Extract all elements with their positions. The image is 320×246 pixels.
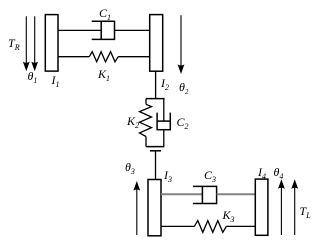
spring K2	[140, 99, 152, 147]
angle arrow theta4 (upward)	[278, 179, 285, 235]
wire I2 bottom to parallel bar	[155, 71, 157, 98]
damper C2	[156, 99, 171, 147]
inertia I3	[148, 180, 161, 236]
wire I3 to spring K3	[161, 225, 194, 227]
torque arrow T_R (left, downward)	[23, 16, 30, 71]
inertia I1	[45, 15, 58, 72]
wire T to I3	[155, 151, 157, 180]
wire I1 to damper C1	[58, 29, 101, 31]
angle arrow theta1 (left, downward)	[31, 16, 38, 71]
angle arrow theta3 (upward)	[133, 181, 140, 235]
wire C3 to I4 (gray)	[217, 193, 256, 195]
inertia I4	[255, 179, 268, 235]
wire top bar of K2/C2	[146, 98, 165, 100]
wire I1 to spring K1	[58, 56, 89, 58]
inertia I2	[150, 15, 163, 72]
wire bottom bar of K2/C2	[146, 146, 164, 148]
wire C1 to I2	[115, 29, 150, 31]
spring K3	[194, 221, 226, 233]
wire I3 to damper C3 (gray)	[161, 193, 202, 195]
angle arrow theta2 (downward)	[178, 15, 185, 74]
wire K3 to I4	[226, 225, 255, 227]
torque arrow T_L (right, upward)	[291, 179, 298, 235]
node T-junction to I3	[150, 150, 161, 152]
damper C1	[92, 21, 115, 40]
wire K1 to I2	[118, 56, 150, 58]
spring K1	[89, 52, 118, 62]
damper C3	[193, 186, 217, 205]
